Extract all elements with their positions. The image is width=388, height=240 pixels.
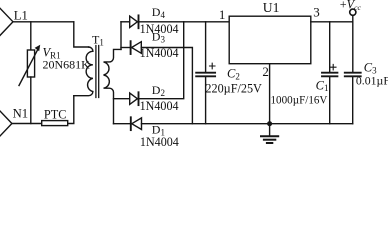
svg-text:D4: D4 — [152, 5, 166, 20]
svg-text:1N4004: 1N4004 — [140, 99, 179, 113]
capacitor C2 top lead — [205, 22, 207, 72]
svg-text:U1: U1 — [263, 0, 280, 15]
terminal N1 — [0, 110, 12, 137]
svg-text:3: 3 — [313, 4, 320, 19]
transformer T1 core — [96, 46, 99, 98]
capacitor C2 bottom lead — [205, 77, 207, 124]
diode D4 — [121, 15, 139, 28]
svg-text:2: 2 — [262, 64, 269, 79]
svg-text:PTC: PTC — [44, 108, 67, 122]
node varistor top lead — [30, 22, 32, 50]
wire Vcc node to C3 — [352, 15, 354, 72]
svg-text:D2: D2 — [152, 83, 165, 98]
diode D1 — [114, 117, 142, 130]
wire L1 to riser — [13, 21, 74, 23]
svg-text:0.01µF: 0.01µF — [356, 73, 388, 87]
terminal L1 — [0, 7, 13, 36]
wire varistor bottom lead — [30, 77, 32, 124]
op-amp U1 box — [229, 16, 311, 64]
wire D2 cathode riser to plus rail — [139, 22, 184, 99]
capacitor C2 polarity plus — [210, 63, 216, 69]
svg-text:1N4004: 1N4004 — [140, 135, 179, 148]
svg-text:1: 1 — [219, 7, 226, 22]
svg-text:T1: T1 — [92, 33, 104, 48]
svg-text:C1: C1 — [316, 78, 329, 93]
capacitor C1 bottom lead — [329, 77, 331, 124]
wire D3 anode to ground drop — [141, 48, 192, 124]
wire D4 cathode to U1 pin1 — [139, 21, 230, 23]
capacitor C1 plates — [322, 73, 337, 77]
svg-text:1000µF/16V: 1000µF/16V — [271, 94, 328, 106]
varistor VR1 arrow — [19, 45, 40, 86]
wire ground rail — [142, 123, 353, 125]
varistor VR1 body — [27, 50, 34, 77]
wire U1 pin3 row — [311, 21, 353, 23]
capacitor C1 top lead — [329, 22, 331, 72]
wire N1 to PTC — [12, 123, 42, 125]
capacitor C3 bottom lead — [352, 77, 354, 124]
wire bridge left rail top — [120, 22, 122, 50]
svg-text:C2: C2 — [227, 67, 240, 82]
diode D3 — [121, 41, 141, 54]
ground symbol — [261, 124, 278, 143]
wire U1 pin2 drop — [269, 64, 271, 124]
capacitor C3 plates — [345, 73, 361, 77]
resistor PTC — [42, 121, 68, 126]
svg-text:+Vcc: +Vcc — [340, 0, 362, 12]
wire primary top riser — [74, 22, 89, 47]
svg-text:L1: L1 — [14, 8, 28, 22]
transformer T1 primary winding — [74, 47, 93, 96]
node +Vcc terminal circle — [350, 9, 356, 15]
capacitor C2 plates — [196, 73, 215, 77]
junction dot pin2 ground — [267, 121, 272, 126]
svg-text:N1: N1 — [13, 106, 29, 120]
svg-text:220µF/25V: 220µF/25V — [205, 82, 262, 96]
diode D2 — [114, 92, 139, 105]
svg-text:20N681K: 20N681K — [43, 58, 91, 72]
wire PTC to primary bottom riser — [68, 96, 74, 124]
capacitor C1 polarity plus — [331, 64, 337, 70]
transformer T1 secondary winding — [104, 49, 122, 123]
